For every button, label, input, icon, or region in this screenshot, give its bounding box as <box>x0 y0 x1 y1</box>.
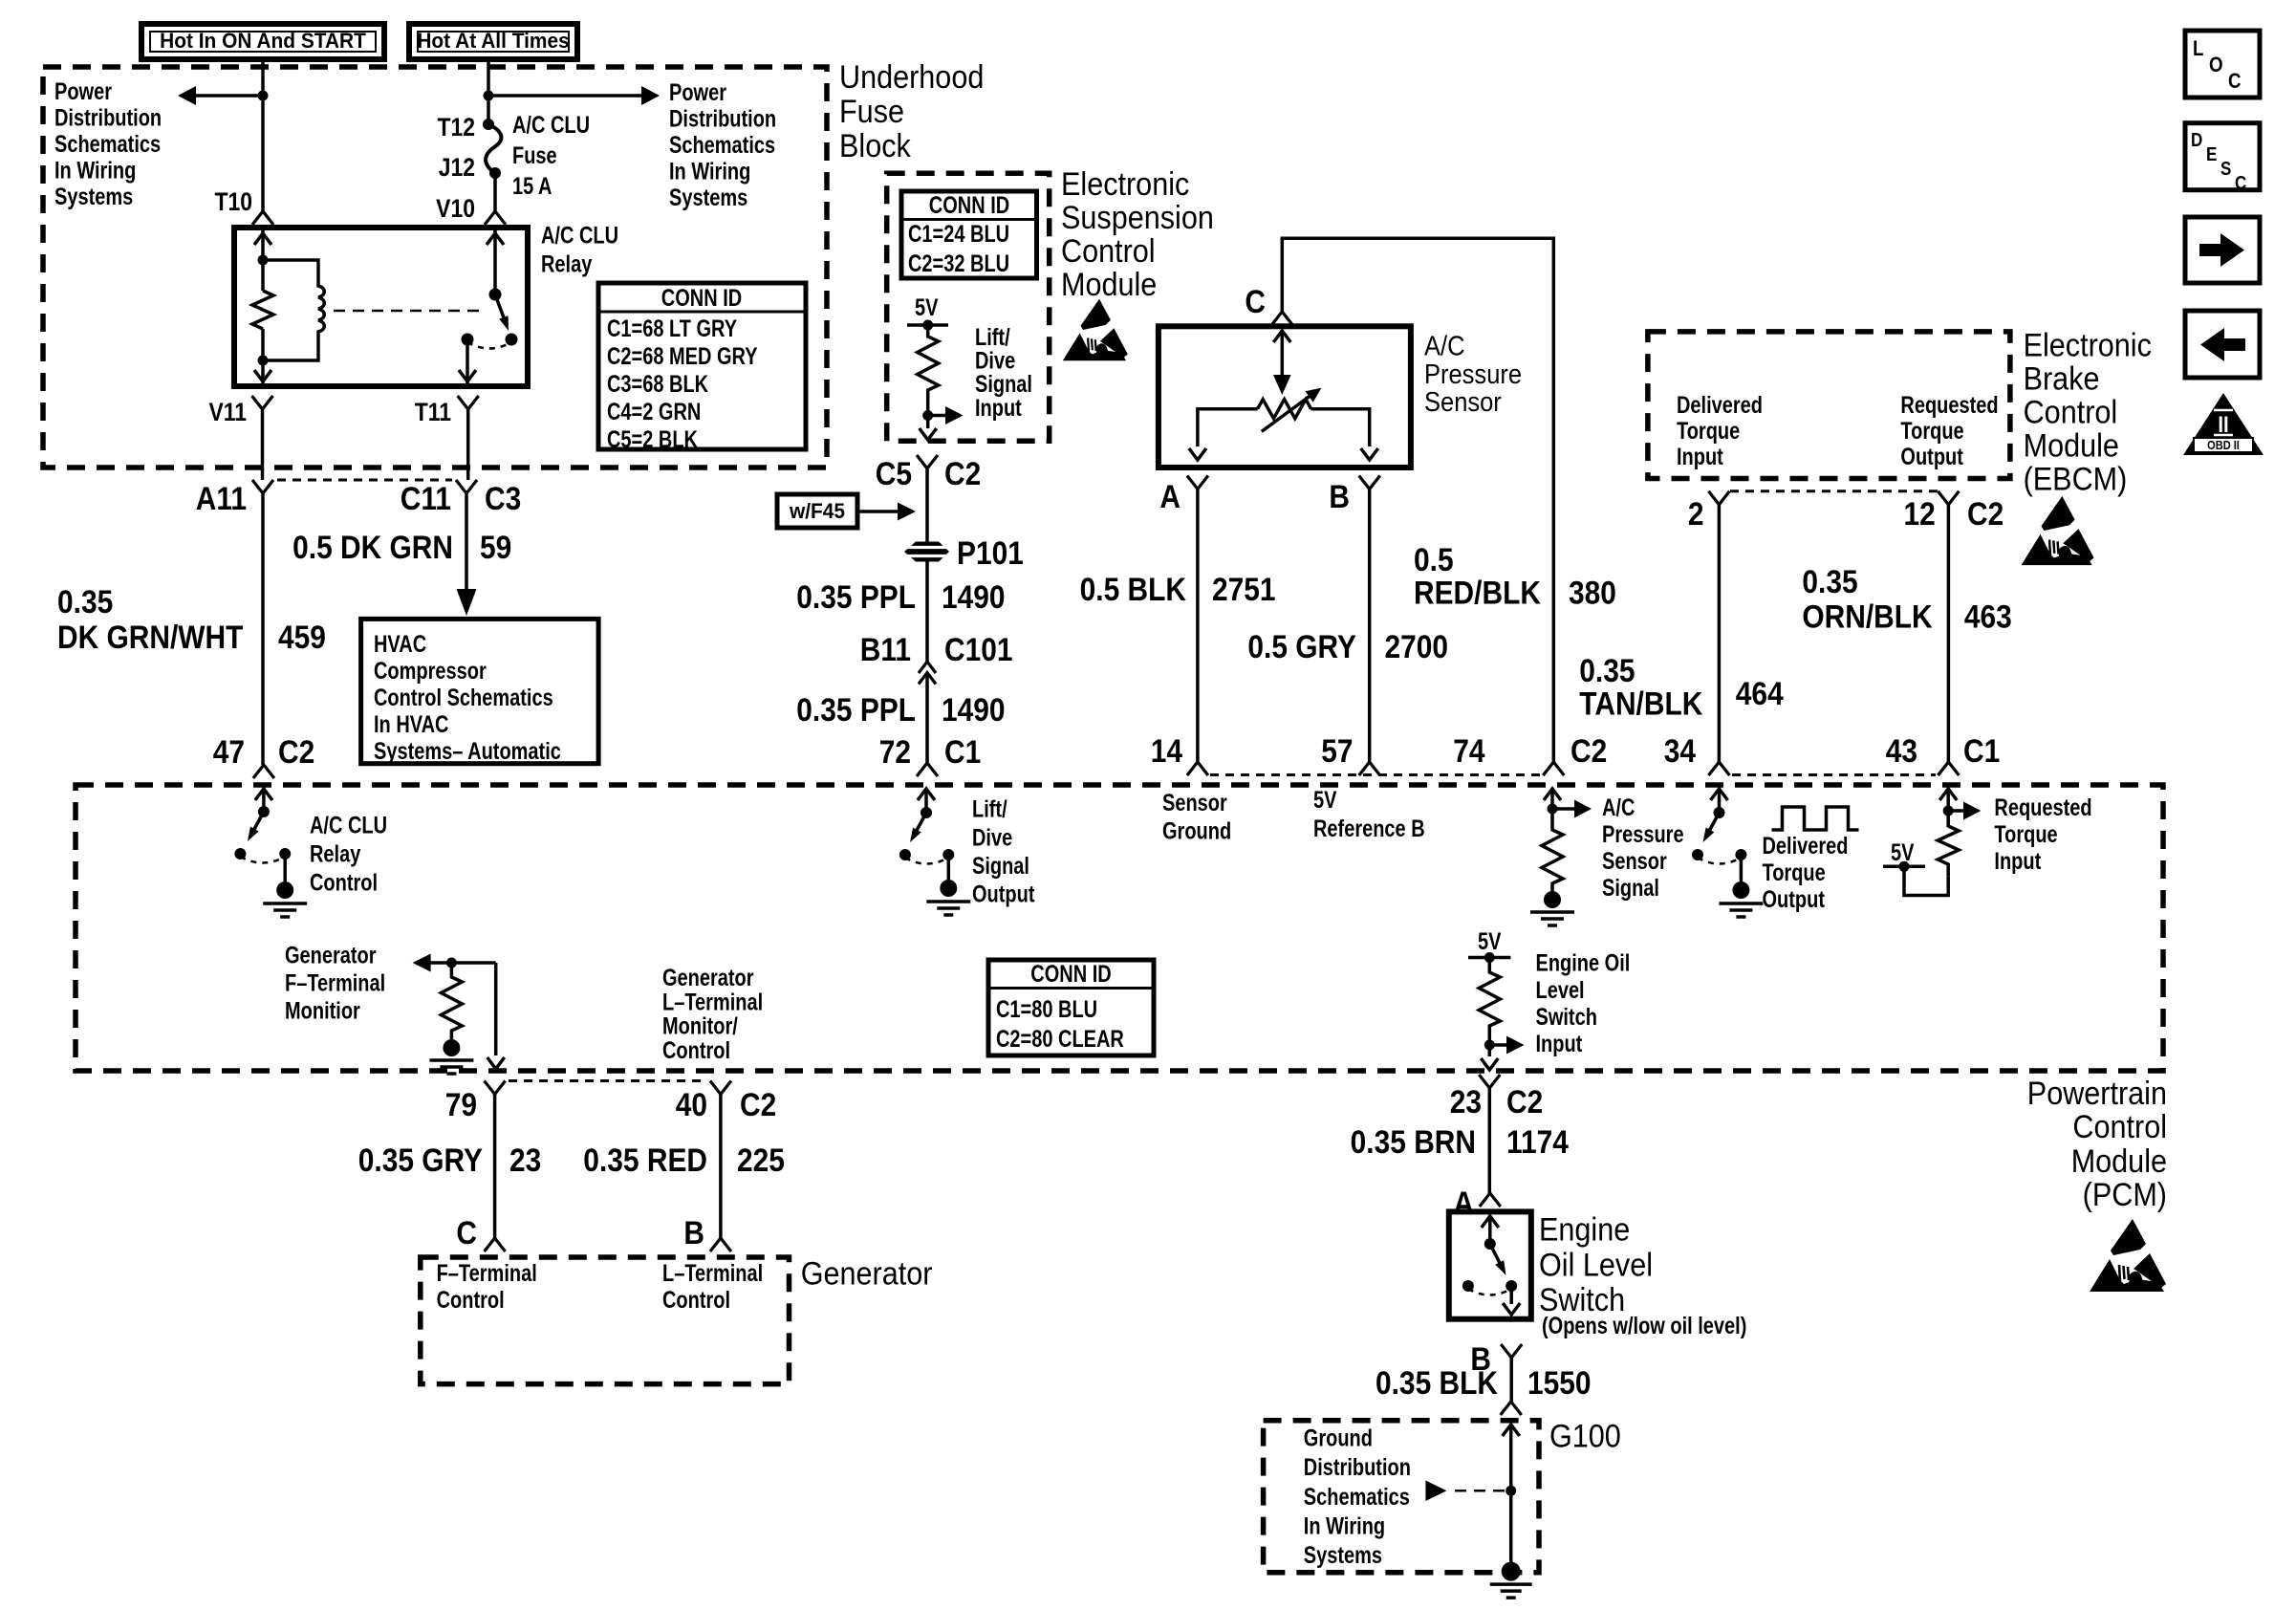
note L-Terminal Control <box>662 1260 763 1314</box>
note A/C Pressure Sensor Signal <box>1602 794 1684 902</box>
junction dot lift/dive <box>922 410 933 421</box>
connector chevron T11 <box>458 396 479 409</box>
svg-text:Systems– Automatic: Systems– Automatic <box>374 738 561 765</box>
svg-text:0.35 BRN: 0.35 BRN <box>1351 1123 1476 1160</box>
note Delivered Torque Input <box>1677 392 1763 470</box>
svg-text:Sensor: Sensor <box>1424 386 1502 418</box>
wire 12 to 43 <box>1947 505 1951 762</box>
CONN ID table PCM <box>988 960 1154 1055</box>
svg-text:A/C CLU: A/C CLU <box>310 812 387 838</box>
svg-text:Generator: Generator <box>285 943 377 969</box>
wire sensor wiper feed <box>1281 331 1285 375</box>
svg-text:Signal: Signal <box>972 853 1029 880</box>
switch blade delivered torque <box>1703 813 1720 842</box>
svg-text:Schematics: Schematics <box>669 132 775 159</box>
junction dot engine oil <box>1484 1040 1495 1051</box>
note Lift/Dive Signal Input <box>975 324 1032 421</box>
svg-text:0.35: 0.35 <box>1802 563 1857 599</box>
svg-text:Suspension: Suspension <box>1061 200 1214 236</box>
contact dashed arc engine oil <box>1468 1289 1511 1295</box>
svg-text:A/C CLU: A/C CLU <box>541 222 618 249</box>
svg-text:Schematics: Schematics <box>1304 1484 1410 1511</box>
generator dashed box <box>421 1257 790 1384</box>
connector chevron C <box>1271 312 1292 325</box>
arrow w/F45 to wire <box>857 503 916 521</box>
svg-text:5V: 5V <box>1313 787 1336 814</box>
connector chevron 43 <box>1938 762 1959 775</box>
switch pivot engine oil <box>1484 1238 1496 1250</box>
connector chevron 34 <box>1708 762 1729 775</box>
svg-text:2700: 2700 <box>1385 628 1449 664</box>
svg-text:T11: T11 <box>415 398 451 426</box>
svg-text:Powertrain: Powertrain <box>2027 1076 2167 1112</box>
underhood fuse block dashed box <box>43 67 827 468</box>
note A/C CLU Relay Control <box>310 812 387 896</box>
wire V11 to A11 <box>261 409 265 480</box>
svg-text:C: C <box>1245 283 1266 319</box>
ESD symbol ESCM <box>1063 299 1128 361</box>
arrow to power distribution left <box>178 86 263 105</box>
svg-text:B: B <box>1329 478 1350 514</box>
svg-text:0.5: 0.5 <box>1414 541 1454 577</box>
svg-text:Pressure: Pressure <box>1424 358 1522 389</box>
svg-text:Ground: Ground <box>1304 1425 1373 1452</box>
barb arrow up sensor feed <box>1273 331 1290 342</box>
switch blade lift/dive output <box>910 813 926 842</box>
label Electronic Suspension Control Module <box>1061 166 1214 303</box>
svg-text:464: 464 <box>1736 675 1784 711</box>
svg-text:72: 72 <box>879 733 911 770</box>
svg-text:RED/BLK: RED/BLK <box>1414 575 1541 611</box>
svg-text:Torque: Torque <box>1994 821 2057 848</box>
note Sensor Ground <box>1162 790 1231 844</box>
svg-text:D: D <box>2191 129 2202 151</box>
connector chevron 79 <box>485 1081 506 1095</box>
svg-text:A: A <box>1453 1185 1474 1221</box>
ground relay control <box>263 881 307 917</box>
5V supply bar requested torque <box>1883 865 1925 869</box>
engine oil level switch box <box>1449 1211 1531 1318</box>
relay switch pivot <box>489 289 502 301</box>
svg-text:A/C: A/C <box>1424 330 1465 361</box>
svg-text:Switch: Switch <box>1536 1004 1597 1031</box>
label A/C Pressure Sensor <box>1424 330 1522 418</box>
svg-text:Power: Power <box>669 79 726 106</box>
connector chevron V10 <box>485 211 506 225</box>
svg-text:Module: Module <box>1061 267 1157 303</box>
svg-text:C11: C11 <box>401 480 451 516</box>
resistor pressure signal <box>1542 809 1563 891</box>
switch contact right engine oil <box>1505 1280 1517 1292</box>
svg-text:C2: C2 <box>278 733 314 770</box>
arrow lift/dive signal input <box>928 406 964 424</box>
label box Hot In ON And START <box>141 24 384 59</box>
ESD symbol EBCM <box>2022 496 2094 565</box>
barb arrow up G100 <box>1503 1425 1520 1436</box>
svg-text:w/F45: w/F45 <box>789 500 845 524</box>
svg-text:Fuse: Fuse <box>512 142 557 169</box>
svg-text:T12: T12 <box>437 113 475 141</box>
svg-text:L–Terminal: L–Terminal <box>662 989 763 1015</box>
svg-text:0.5 BLK: 0.5 BLK <box>1080 571 1186 607</box>
connector chevron 57 <box>1359 762 1380 775</box>
switch pivot relay control <box>258 806 270 817</box>
junction battery feed <box>484 91 494 101</box>
svg-text:F–Terminal: F–Terminal <box>285 969 385 996</box>
relay resistor <box>252 291 273 329</box>
icon box DESC <box>2185 123 2260 194</box>
svg-text:B11: B11 <box>860 631 911 667</box>
note Ground Distribution Schematics <box>1304 1425 1411 1569</box>
connector chevron 72 <box>917 763 938 776</box>
potentiometer variable arrow <box>1262 388 1322 432</box>
switch blade engine oil <box>1490 1244 1506 1275</box>
svg-text:Input: Input <box>1994 848 2041 875</box>
wire contact to ground <box>283 854 287 881</box>
svg-text:Schematics: Schematics <box>54 131 161 158</box>
junction dot 5V requested torque <box>1899 861 1910 872</box>
svg-text:L–Terminal: L–Terminal <box>662 1260 763 1287</box>
svg-text:S: S <box>2220 158 2231 180</box>
wire F-terminal to 79 <box>494 963 498 1055</box>
label Underhood Fuse Block <box>839 59 984 164</box>
svg-text:0.35 GRY: 0.35 GRY <box>358 1142 483 1178</box>
barb arrow up relay coil <box>254 233 271 245</box>
svg-text:C2=68 MED GRY: C2=68 MED GRY <box>607 343 758 370</box>
svg-text:463: 463 <box>1964 598 2012 635</box>
svg-text:Delivered: Delivered <box>1677 392 1763 419</box>
inline connector chevrons C101 <box>919 662 936 685</box>
contact dashed arc relay control <box>240 857 285 863</box>
connector chevron B <box>1359 476 1380 490</box>
switch contact left relay control <box>234 848 246 859</box>
svg-text:Torque: Torque <box>1900 418 1963 445</box>
barb arrow down lift/dive out <box>920 428 937 440</box>
barb arrow up engine oil switch <box>1482 1216 1499 1228</box>
svg-text:Distribution: Distribution <box>1304 1454 1411 1481</box>
wire 74 into PCM pressure signal <box>1550 789 1554 809</box>
arrow generator F-terminal monitor <box>413 954 496 972</box>
svg-text:C2: C2 <box>1570 732 1607 769</box>
svg-text:Signal: Signal <box>975 371 1032 398</box>
svg-text:Delivered: Delivered <box>1763 833 1849 859</box>
icon box arrow right <box>2185 217 2260 283</box>
svg-text:0.35 PPL: 0.35 PPL <box>796 691 916 728</box>
splice P101 <box>904 542 949 562</box>
junction dot T12 <box>483 119 494 130</box>
CONN ID table ESCM <box>901 191 1037 278</box>
svg-text:DK GRN/WHT: DK GRN/WHT <box>57 619 244 655</box>
connector chevron B engine oil <box>1501 1344 1522 1358</box>
wire switch output <box>1509 1286 1513 1304</box>
connector dashed line 79-40 <box>509 1079 707 1082</box>
svg-text:23: 23 <box>1450 1083 1482 1120</box>
connector chevron T10 <box>252 211 273 225</box>
barb arrow up requested torque <box>1939 789 1957 800</box>
junction ignition feed <box>258 91 269 101</box>
svg-text:Requested: Requested <box>1994 794 2091 821</box>
connector chevron A <box>1187 476 1208 490</box>
5V supply bar ESCM <box>907 323 948 327</box>
svg-text:L: L <box>2193 38 2203 61</box>
wire 40 to B <box>719 1095 723 1239</box>
arrow A/C pressure sensor signal <box>1552 800 1592 818</box>
switch contact right lift/dive <box>942 849 954 860</box>
junction dot requested torque <box>1943 806 1954 816</box>
svg-text:Module: Module <box>2071 1143 2167 1180</box>
note Generator F-Terminal Monitior <box>285 943 385 1024</box>
barb arrow down engine oil out <box>1481 1058 1498 1070</box>
svg-text:57: 57 <box>1321 732 1353 769</box>
svg-text:C5: C5 <box>876 455 912 491</box>
svg-text:Oil Level: Oil Level <box>1539 1247 1653 1283</box>
svg-text:Lift/: Lift/ <box>975 324 1010 351</box>
svg-text:C1=24 BLU: C1=24 BLU <box>908 221 1009 248</box>
svg-text:Control: Control <box>662 1037 730 1064</box>
junction dot F-terminal <box>446 958 457 968</box>
svg-text:Systems: Systems <box>669 185 747 211</box>
svg-text:Underhood: Underhood <box>839 59 984 96</box>
EBCM dashed box <box>1648 332 2010 479</box>
ground delivered torque <box>1719 881 1763 917</box>
note Generator L-Terminal Monitor/Control <box>662 965 763 1064</box>
svg-text:HVAC: HVAC <box>374 631 426 658</box>
svg-text:V11: V11 <box>208 398 247 426</box>
svg-text:Control: Control <box>437 1287 505 1314</box>
svg-text:225: 225 <box>737 1142 785 1178</box>
svg-text:380: 380 <box>1569 575 1616 611</box>
connector chevron A engine oil <box>1480 1193 1501 1207</box>
switch pivot lift/dive output <box>921 807 932 818</box>
relay switch feed wire <box>493 228 497 294</box>
connector chevron 23/C2 <box>1479 1075 1500 1088</box>
svg-text:C1: C1 <box>944 733 981 770</box>
connector chevron C generator <box>485 1238 506 1251</box>
connector chevron B generator <box>710 1238 731 1251</box>
svg-text:Signal: Signal <box>1602 875 1659 902</box>
note power distribution schematics (right) <box>669 79 776 211</box>
arrow ground distribution <box>1425 1481 1446 1502</box>
svg-text:59: 59 <box>480 529 511 565</box>
label Engine Oil Level Switch <box>1539 1211 1653 1317</box>
wire battery feed <box>487 59 490 124</box>
barb arrow down switch output <box>1503 1303 1520 1315</box>
switch contact left engine oil <box>1462 1280 1474 1292</box>
contact dashed arc lift/dive <box>905 858 948 864</box>
svg-text:Control: Control <box>310 869 378 896</box>
svg-text:Control Schematics: Control Schematics <box>374 685 553 711</box>
junction dot J12 <box>489 167 501 179</box>
resistor engine oil pullup <box>1479 958 1500 1046</box>
arrow requested torque input <box>1948 802 1981 820</box>
connector chevron C11 <box>456 480 477 493</box>
svg-text:(EBCM): (EBCM) <box>2024 461 2128 497</box>
wire lift/dive to C5 <box>926 416 930 429</box>
wire engine oil down <box>1488 1045 1492 1056</box>
connector chevron V11 <box>252 396 273 409</box>
svg-text:C1=68 LT GRY: C1=68 LT GRY <box>607 315 737 342</box>
wire switch feed <box>1488 1216 1492 1244</box>
wire sensor A to 14 <box>1196 490 1200 763</box>
svg-text:B: B <box>683 1214 704 1251</box>
svg-text:Control: Control <box>1061 233 1156 270</box>
svg-text:1490: 1490 <box>942 578 1006 615</box>
barb arrow down 79 <box>487 1057 505 1069</box>
connector chevron 12 <box>1938 491 1959 505</box>
wire 23 to A <box>1488 1088 1492 1193</box>
svg-text:Monitior: Monitior <box>285 997 360 1024</box>
svg-text:(Opens w/low oil level): (Opens w/low oil level) <box>1542 1313 1746 1339</box>
wire fuse to relay <box>493 173 497 211</box>
svg-text:Systems: Systems <box>54 184 133 210</box>
svg-text:F–Terminal: F–Terminal <box>437 1260 537 1287</box>
svg-text:C2=32 BLU: C2=32 BLU <box>908 250 1009 277</box>
note power distribution schematics (left) <box>54 78 162 210</box>
wire label 0.35 DK GRN/WHT <box>57 583 244 655</box>
svg-text:C3: C3 <box>485 480 521 516</box>
resistor lift/dive pullup <box>918 325 939 416</box>
note HVAC compressor control schematics <box>374 631 561 765</box>
svg-text:Relay: Relay <box>541 250 593 277</box>
svg-text:J12: J12 <box>439 153 475 182</box>
label Powertrain Control Module (PCM) <box>2027 1076 2167 1213</box>
svg-text:In Wiring: In Wiring <box>1304 1512 1385 1539</box>
wire 43 into PCM requested torque <box>1946 789 1950 811</box>
svg-text:C5=2 BLK: C5=2 BLK <box>607 426 699 453</box>
wire P101 to C101 <box>925 562 929 663</box>
svg-text:Control: Control <box>662 1287 730 1314</box>
svg-text:A11: A11 <box>196 480 247 516</box>
svg-text:OBD II: OBD II <box>2207 438 2240 452</box>
svg-text:P101: P101 <box>957 534 1024 571</box>
switch blade relay control <box>248 812 264 841</box>
label Electronic Brake Control Module (EBCM) <box>2024 327 2152 497</box>
svg-text:Module: Module <box>2024 427 2119 464</box>
note Lift/Dive Signal Output <box>972 796 1035 908</box>
svg-text:0.5 DK GRN: 0.5 DK GRN <box>292 529 453 565</box>
wire 47 into PCM <box>262 789 266 812</box>
svg-text:Reference B: Reference B <box>1313 816 1425 842</box>
CONN ID table underhood <box>598 283 806 453</box>
svg-text:E: E <box>2206 143 2217 165</box>
note fuse name A/C CLU Fuse 15 A <box>512 112 590 200</box>
5V supply bar engine oil <box>1468 956 1510 960</box>
ground pressure signal <box>1530 891 1574 925</box>
svg-text:C2=80 CLEAR: C2=80 CLEAR <box>996 1026 1124 1053</box>
svg-text:Sensor: Sensor <box>1602 848 1667 875</box>
svg-text:CONN ID: CONN ID <box>1030 961 1111 988</box>
fuse A/C CLU 15 A <box>486 124 501 173</box>
wire 5V to resistor requested torque <box>1904 866 1948 895</box>
svg-text:Ground: Ground <box>1162 817 1231 844</box>
ESD symbol PCM <box>2090 1219 2166 1292</box>
wire label 0.35 ORN/BLK <box>1802 563 1932 635</box>
svg-text:Torque: Torque <box>1763 859 1826 886</box>
switch pivot delivered torque <box>1714 807 1725 818</box>
arrow engine oil level switch input <box>1489 1036 1524 1055</box>
A/C pressure sensor box <box>1159 326 1411 468</box>
square wave symbol <box>1772 807 1859 830</box>
barb arrow up lift/dive output <box>918 789 935 800</box>
wire A11 down <box>261 493 265 765</box>
svg-text:Torque: Torque <box>1677 418 1740 445</box>
junction dot pressure signal <box>1548 804 1558 815</box>
note Delivered Torque Output <box>1763 833 1849 913</box>
relay linkage dashed line <box>334 310 483 313</box>
switch contact right relay control <box>279 848 291 859</box>
relay inductor coil <box>263 260 324 360</box>
svg-text:Relay: Relay <box>310 840 361 867</box>
barb arrow up relay control <box>255 789 272 800</box>
relay switch blade <box>495 294 509 331</box>
svg-text:Power: Power <box>54 78 112 105</box>
svg-text:C101: C101 <box>944 631 1013 667</box>
dashed link to ground wire <box>1455 1490 1506 1492</box>
note Engine Oil Level Switch Input <box>1536 950 1631 1057</box>
PCM dashed box <box>76 785 2163 1071</box>
svg-text:C: C <box>2228 71 2242 94</box>
svg-text:C1: C1 <box>1963 732 2000 769</box>
wire label 0.5 RED/BLK <box>1414 541 1541 611</box>
svg-text:0.5 GRY: 0.5 GRY <box>1247 628 1356 664</box>
svg-text:47: 47 <box>213 733 245 770</box>
connector chevron 47 <box>253 765 274 778</box>
label box Hot At All Times <box>409 24 577 59</box>
barb arrow down branch B <box>1361 448 1378 460</box>
svg-text:A/C CLU: A/C CLU <box>512 112 590 139</box>
connector chevron 2 <box>1708 491 1729 505</box>
svg-text:15 A: 15 A <box>512 173 552 200</box>
svg-text:C: C <box>456 1214 477 1251</box>
svg-text:Control: Control <box>2024 394 2118 430</box>
barb arrow up delivered torque <box>1711 789 1728 800</box>
svg-text:23: 23 <box>509 1142 541 1178</box>
svg-text:(PCM): (PCM) <box>2083 1177 2167 1213</box>
arrow to power distribution right <box>488 86 660 105</box>
svg-text:Generator: Generator <box>801 1255 933 1292</box>
svg-text:Dive: Dive <box>972 824 1012 851</box>
svg-text:Engine Oil: Engine Oil <box>1536 950 1631 977</box>
svg-text:Fuse: Fuse <box>839 94 904 130</box>
svg-text:Electronic: Electronic <box>1061 166 1189 203</box>
relay coil junction bottom <box>258 356 269 366</box>
barb arrow down relay output <box>459 370 476 381</box>
connector chevron C5/C2 <box>917 455 938 468</box>
wire into G100 <box>1509 1425 1513 1572</box>
junction dot G100 <box>1505 1486 1516 1496</box>
svg-text:C2: C2 <box>740 1086 776 1122</box>
svg-text:CONN ID: CONN ID <box>929 192 1009 219</box>
svg-text:34: 34 <box>1664 732 1696 769</box>
label box w/F45 <box>777 494 857 528</box>
svg-text:2751: 2751 <box>1212 571 1276 607</box>
svg-text:79: 79 <box>445 1086 477 1122</box>
relay contact dashed arc <box>467 342 511 349</box>
arrow to potentiometer wiper <box>1273 375 1291 395</box>
wire 72 into PCM lift/dive output <box>924 789 928 813</box>
svg-text:Block: Block <box>839 128 912 164</box>
label A/C CLU Relay <box>541 222 618 277</box>
wire lift/dive contact to ground <box>947 855 951 880</box>
junction dot 5V ESCM <box>922 320 933 331</box>
ground lift/dive output <box>926 880 970 915</box>
svg-text:Compressor: Compressor <box>374 658 487 685</box>
wire sensor C feed riser <box>1282 238 1553 765</box>
ESCM dashed box <box>887 173 1050 441</box>
wire C11 down <box>465 493 468 589</box>
note 5V Reference B <box>1313 787 1425 841</box>
icon box LOC <box>2185 31 2260 98</box>
